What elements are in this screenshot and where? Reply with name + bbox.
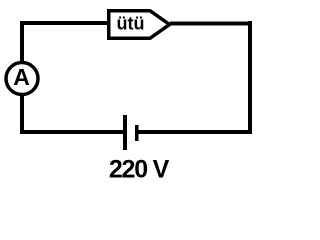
wire left segment (20, 21, 24, 134)
battery short plate (-) (135, 125, 139, 141)
wire top-right segment (170, 22, 252, 26)
svg-text:220 V: 220 V (109, 156, 170, 184)
wire bottom-left segment (20, 130, 124, 134)
ammeter A1 circle (6, 63, 38, 95)
svg-text:A: A (13, 64, 30, 90)
wire right segment (248, 21, 252, 134)
battery long plate (+) (123, 115, 127, 150)
svg-text:ütü: ütü (117, 13, 145, 33)
iron (ütü) component body (109, 11, 170, 39)
wire bottom-right segment (137, 130, 252, 134)
wire top-left segment (20, 21, 110, 25)
